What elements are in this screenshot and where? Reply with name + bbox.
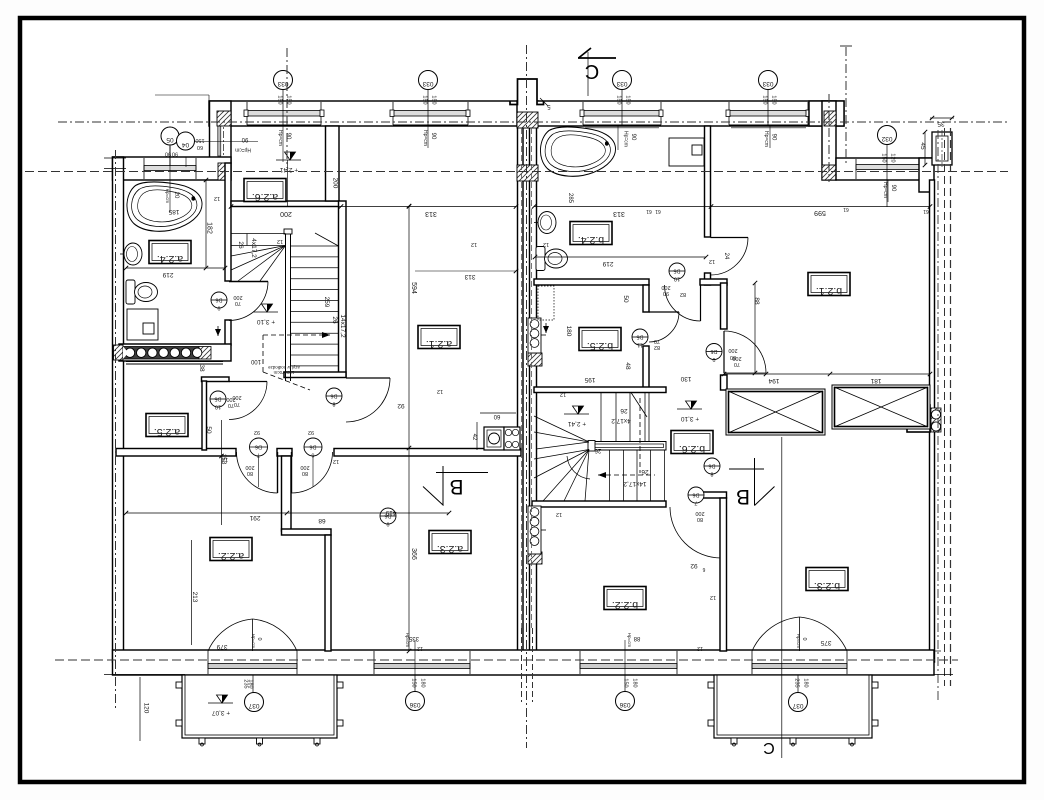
bubble 04 left: [177, 132, 195, 150]
wall step top-left unit A: [210, 101, 232, 163]
svg-text:14x17,2: 14x17,2: [339, 314, 346, 338]
svg-text:26: 26: [594, 447, 601, 453]
svg-text:48: 48: [624, 362, 631, 370]
svg-text:04: 04: [182, 141, 190, 148]
wall bathroom-A bottom radiator band: [119, 344, 231, 361]
svg-text:14x17,2: 14x17,2: [623, 480, 647, 487]
wall b.2.1 left lower: [721, 283, 728, 329]
door bubble D6/9 a.2.3: [380, 508, 396, 524]
svg-text:12: 12: [277, 238, 283, 244]
room label a.2.2: [210, 538, 252, 561]
room label a.2.3: [429, 531, 471, 554]
svg-text:50: 50: [622, 295, 629, 303]
axis line horizontal top: [58, 121, 1008, 123]
window W3 top unit B: [583, 102, 661, 125]
hatch below radiator b.2.5: [528, 353, 542, 366]
wall stairs-A right: [339, 201, 347, 377]
window W1 top unit A: [247, 102, 321, 125]
svg-text:D6: D6: [309, 444, 316, 450]
svg-text:150: 150: [286, 95, 292, 104]
svg-text:Hp=cm: Hp=cm: [627, 633, 632, 648]
svg-text:033: 033: [616, 80, 627, 87]
wall a.2.5 right: [202, 381, 207, 450]
svg-text:70: 70: [654, 338, 660, 344]
wall corridor-B jog: [692, 492, 727, 498]
radiator circles bathroom-A: [123, 347, 199, 360]
svg-text:Hp=cm: Hp=cm: [882, 182, 888, 198]
axis line horizontal bottom: [55, 659, 958, 661]
svg-text:10: 10: [215, 404, 221, 410]
svg-text:120: 120: [890, 153, 896, 162]
axis line top-right step vertical: [828, 94, 830, 182]
svg-text:b.2.1.: b.2.1.: [816, 285, 842, 297]
svg-text:8: 8: [710, 471, 713, 477]
svg-text:594: 594: [410, 282, 417, 294]
left margin extension lines: [104, 157, 126, 159]
svg-text:92: 92: [308, 429, 314, 435]
door bubble D6/7 corridor A: [250, 438, 268, 456]
svg-text:4x17,2: 4x17,2: [611, 417, 631, 424]
svg-text:200: 200: [300, 464, 309, 470]
svg-text:80: 80: [697, 516, 703, 522]
wall exterior top unit A: [209, 101, 538, 126]
svg-text:80: 80: [247, 470, 253, 476]
wall exterior right: [930, 180, 935, 662]
svg-text:200: 200: [245, 464, 254, 470]
svg-text:150: 150: [881, 153, 887, 162]
door bubble D6/9 bathroom A: [211, 292, 227, 308]
hatched pier step-B bottom: [822, 165, 836, 180]
svg-text:b.2.6.: b.2.6.: [679, 443, 705, 455]
balcony door unit A: [208, 651, 297, 674]
level mark +3,10 unit B: [677, 408, 702, 410]
wall exterior bottom: [113, 650, 935, 675]
hatched pier party wall second repeat: [517, 165, 538, 181]
svg-text:b.2.5.: b.2.5.: [587, 340, 613, 352]
hatch below radiator b.2.2: [528, 552, 542, 564]
svg-text:0: 0: [256, 637, 262, 640]
wall corner right wing: [919, 158, 934, 192]
svg-text:200: 200: [233, 294, 242, 300]
wall vestibule a.2.5 nib: [202, 377, 230, 382]
dim line y513 unit A: [126, 512, 449, 514]
svg-text:6: 6: [702, 566, 705, 572]
svg-text:b.2.3.: b.2.3.: [814, 580, 840, 592]
bubble 036 right: [616, 692, 635, 711]
wall exterior left: [113, 157, 124, 662]
wall exterior bathroom-A top: [113, 157, 232, 180]
axis line horizontal second: [25, 171, 1008, 173]
svg-text:8: 8: [332, 401, 335, 407]
svg-text:90: 90: [890, 185, 896, 192]
radiator vertical b.2.2: [528, 506, 541, 554]
svg-text:182: 182: [206, 222, 213, 234]
svg-text:12: 12: [222, 456, 228, 462]
shaft unit B right: [907, 405, 930, 432]
svg-text:180: 180: [803, 678, 809, 687]
svg-text:12: 12: [697, 645, 703, 651]
svg-text:150: 150: [195, 137, 204, 143]
dim line interior x203 bath A: [205, 180, 207, 268]
wall a.2.5 top thin: [126, 361, 223, 363]
bathtub unit B: [540, 127, 615, 176]
svg-text:12: 12: [710, 594, 716, 600]
svg-text:033: 033: [762, 80, 773, 87]
svg-text:9: 9: [386, 521, 389, 527]
svg-text:35: 35: [937, 120, 945, 127]
door b.2.1 entry: [723, 331, 725, 373]
svg-text:D6: D6: [255, 444, 262, 450]
section mark C bottom: [781, 437, 783, 758]
door bubble D5/9 b.2.1: [706, 344, 722, 360]
svg-text:036: 036: [619, 701, 630, 708]
svg-text:194: 194: [768, 377, 779, 384]
svg-text:38: 38: [198, 364, 205, 372]
svg-text:285: 285: [567, 193, 573, 204]
wall a.2.6/a.2.1 divider: [326, 126, 340, 201]
svg-text:120: 120: [143, 703, 150, 714]
toilet unit B: [536, 247, 568, 271]
svg-text:24: 24: [723, 253, 729, 260]
svg-text:+ 2,41: + 2,41: [567, 420, 586, 427]
door D6-7 corridor: [277, 452, 279, 493]
door bathroom-B: [711, 237, 749, 239]
svg-text:150: 150: [623, 678, 629, 687]
svg-text:05: 05: [166, 136, 174, 143]
axis party wall dashed pair main: [521, 128, 523, 628]
closet b.2.3 left: [726, 389, 825, 435]
hatched pier bathroom-A right: [218, 163, 231, 180]
door b.2.5: [647, 312, 649, 346]
bathtub unit A: [127, 182, 202, 231]
svg-text:26: 26: [620, 407, 628, 414]
svg-text:20: 20: [173, 192, 179, 199]
door bathroom-A: [229, 281, 268, 283]
svg-text:Hp=cm: Hp=cm: [623, 131, 629, 147]
shower tray unit B: [669, 138, 704, 166]
svg-text:200: 200: [661, 284, 670, 290]
axis line left edge vertical: [115, 150, 117, 708]
wall b.2.5 right: [643, 285, 649, 312]
wall exterior top unit B: [517, 101, 844, 126]
window W5 right wing: [856, 159, 919, 179]
svg-text:26: 26: [331, 316, 338, 324]
section mark C top: [587, 52, 589, 96]
wall a.2.6 bottom: [231, 201, 339, 207]
svg-text:70: 70: [734, 361, 740, 367]
window W4 top unit B: [729, 102, 808, 125]
section mark B left: [436, 472, 488, 474]
svg-text:185: 185: [168, 208, 179, 215]
hatched pier party wall top: [517, 112, 538, 128]
dim line y268 bath A: [126, 267, 225, 269]
door a.2.5: [229, 381, 267, 383]
svg-text:419: 419: [385, 509, 396, 516]
axis line party wall vertical: [526, 45, 528, 748]
svg-text:150: 150: [625, 95, 631, 104]
svg-text:Hp=cm: Hp=cm: [422, 130, 428, 146]
door bubble D5/10 a.2.5: [210, 391, 226, 407]
svg-text:88: 88: [753, 297, 760, 305]
svg-text:335: 335: [408, 635, 419, 641]
svg-text:195: 195: [584, 376, 595, 383]
hatched pier party wall second: [517, 165, 538, 181]
svg-text:a.2.6.: a.2.6.: [252, 191, 278, 203]
bubble 033 no1: [274, 71, 293, 90]
bubble 032 right: [878, 126, 897, 145]
svg-text:150: 150: [411, 678, 417, 687]
svg-text:130: 130: [680, 375, 691, 382]
svg-text:90: 90: [663, 290, 669, 296]
svg-text:150: 150: [771, 95, 777, 104]
svg-text:200: 200: [732, 355, 741, 361]
door bubble D5/10 bathroom B: [669, 263, 685, 279]
room label b.2.5: [579, 328, 621, 351]
hatched pier party wall top repeat: [517, 112, 538, 128]
wall exterior top-B lower wing: [836, 158, 932, 180]
dim line interior y206 unit B: [534, 206, 930, 208]
hatched pier top-left unit A repeat: [217, 111, 231, 126]
door b.2.6 to b.2.2: [720, 507, 722, 558]
svg-text:B: B: [449, 475, 463, 498]
svg-text:219: 219: [602, 260, 613, 267]
shower tray unit A: [127, 309, 158, 340]
svg-text:C: C: [763, 739, 775, 756]
bubble 05 left: [161, 127, 179, 145]
bubble 033 no4: [759, 71, 778, 90]
svg-text:200: 200: [280, 210, 292, 217]
chimney block above party wall: [518, 79, 538, 104]
svg-text:60: 60: [197, 144, 203, 150]
radiator vertical b.2.5: [528, 318, 541, 353]
wall stairs-B top / b.2.5 bottom: [534, 387, 666, 393]
svg-text:032: 032: [881, 135, 892, 142]
svg-text:12: 12: [709, 258, 715, 264]
svg-text:Hp=cm: Hp=cm: [235, 147, 251, 153]
stair walk line unit A: [262, 335, 264, 372]
svg-text:Hp=cm: Hp=cm: [277, 130, 283, 146]
room label b.2.1: [808, 273, 850, 296]
svg-text:181: 181: [870, 377, 881, 384]
stairs unit B: [589, 442, 666, 451]
svg-text:313: 313: [464, 273, 475, 280]
svg-text:42: 42: [471, 434, 477, 441]
dim line y271 unit A: [415, 270, 516, 272]
svg-text:200: 200: [226, 396, 235, 402]
svg-text:Hp=cm: Hp=cm: [796, 634, 801, 649]
svg-text:180: 180: [565, 326, 572, 337]
svg-text:90: 90: [285, 133, 291, 140]
room label b.2.3: [806, 568, 848, 591]
svg-text:Hp=cm: Hp=cm: [763, 131, 769, 147]
svg-text:D6: D6: [708, 463, 715, 469]
svg-text:200: 200: [332, 178, 339, 189]
svg-text:4x17,2: 4x17,2: [250, 238, 257, 258]
svg-text:150: 150: [277, 95, 283, 104]
svg-text:375: 375: [820, 639, 831, 646]
svg-text:61: 61: [923, 208, 929, 214]
stair walk line B: [639, 398, 641, 473]
washbasin unit B: [538, 212, 556, 234]
svg-text:+ 3,10: + 3,10: [680, 415, 699, 422]
wall stairs-A bottom: [284, 372, 346, 378]
level mark +3,10 stairs A: [253, 311, 278, 313]
balcony unit B: [714, 675, 872, 738]
svg-text:12: 12: [560, 391, 566, 397]
svg-text:037: 037: [248, 702, 259, 709]
svg-text:a.2.5.: a.2.5.: [154, 426, 180, 438]
svg-text:200: 200: [695, 510, 704, 516]
svg-text:150: 150: [762, 95, 768, 104]
balcony unit A: [182, 675, 337, 738]
svg-text:90: 90: [630, 134, 636, 141]
svg-text:150: 150: [422, 95, 428, 104]
svg-text:B: B: [736, 485, 750, 508]
svg-text:a.2.3.: a.2.3.: [437, 543, 463, 555]
svg-text:26: 26: [237, 241, 244, 249]
svg-text:92: 92: [254, 429, 260, 435]
dim line interior x409 vertical: [408, 206, 410, 651]
svg-text:235: 235: [794, 678, 800, 687]
balcony door unit B: [752, 651, 847, 674]
svg-text:9: 9: [217, 305, 220, 311]
svg-text:D5: D5: [710, 348, 717, 354]
door bubble D6/8 b.2.6: [704, 458, 720, 474]
svg-text:12: 12: [543, 241, 549, 247]
svg-text:D5: D5: [673, 268, 680, 274]
svg-text:70: 70: [235, 300, 241, 306]
wall divider b.2.2/b.2.3: [720, 498, 727, 651]
room label b.2.2: [604, 587, 646, 610]
svg-text:b.2.4.: b.2.4.: [578, 234, 604, 246]
bubble 033 no2: [419, 71, 438, 90]
svg-text:033: 033: [422, 80, 433, 87]
door D6-6 corridor: [291, 452, 293, 493]
svg-text:92: 92: [397, 402, 405, 409]
stair arc B: [567, 456, 590, 479]
svg-text:12: 12: [556, 511, 562, 517]
svg-text:9: 9: [712, 356, 715, 362]
dotted shaft b.2.4: [538, 286, 554, 320]
wall bathroom-B right: [705, 126, 711, 237]
door bubble D5/11 b.2.5: [632, 329, 648, 345]
tub A axis texts: [169, 146, 171, 212]
svg-text:82: 82: [654, 344, 660, 350]
top extension line unit A: [208, 95, 210, 101]
door bubble D6/8 hall A: [326, 388, 342, 404]
door bubble D6/7 b.2.6: [688, 487, 704, 503]
svg-text:68: 68: [318, 517, 326, 524]
svg-text:7: 7: [694, 500, 697, 506]
svg-text:150: 150: [431, 95, 437, 104]
svg-text:90: 90: [172, 151, 178, 157]
closet b.2.3 right: [832, 385, 930, 429]
svg-text:180: 180: [248, 679, 254, 688]
bubble 033 no3: [613, 71, 632, 90]
svg-text:180: 180: [420, 678, 426, 687]
svg-text:90: 90: [430, 133, 436, 140]
svg-text:80: 80: [302, 470, 308, 476]
dim line b.2.1 vertical: [754, 283, 756, 373]
svg-text:D6: D6: [692, 492, 699, 498]
wall a.2.5 bottom + corridor south: [116, 449, 236, 457]
wall exterior party: [518, 101, 524, 662]
bubble 036 left: [406, 692, 425, 711]
wall step top-right unit B: [809, 101, 844, 126]
room label a.2.5: [146, 414, 188, 437]
svg-text:037: 037: [792, 702, 803, 709]
svg-text:0: 0: [801, 637, 807, 640]
wall stairs-B bottom: [532, 501, 666, 507]
svg-text:213: 213: [191, 592, 198, 603]
axis party wall dashed pair bottom: [521, 628, 523, 702]
svg-text:61: 61: [655, 208, 661, 214]
svg-text:313: 313: [613, 210, 625, 217]
svg-text:120x70cm: 120x70cm: [273, 370, 294, 375]
svg-text:379: 379: [216, 643, 227, 650]
window a.2.3 bottom: [374, 651, 470, 674]
svg-text:12: 12: [214, 195, 220, 201]
svg-text:291: 291: [249, 514, 260, 521]
bubble 037 balcony B: [789, 693, 808, 712]
room label a.2.1: [418, 326, 460, 349]
wall bathroom-B bottom: [534, 279, 649, 285]
svg-text:313: 313: [425, 210, 437, 217]
svg-text:a.2.4.: a.2.4.: [157, 253, 183, 265]
svg-text:12: 12: [471, 241, 477, 247]
door bubble D6/6 corridor A: [304, 438, 322, 456]
svg-text:82: 82: [680, 291, 686, 297]
svg-text:219: 219: [162, 271, 173, 278]
svg-text:036: 036: [409, 701, 420, 708]
room label a.2.6: [244, 179, 286, 202]
wall divider a.2.2/a.2.3: [282, 456, 292, 531]
balcony door A arcs: [252, 619, 254, 651]
balcony door B arcs: [799, 617, 801, 651]
svg-text:12: 12: [417, 645, 423, 651]
svg-text:60: 60: [493, 413, 500, 419]
svg-text:100: 100: [250, 358, 261, 364]
chimney top right: [932, 132, 952, 165]
svg-text:12: 12: [437, 388, 443, 394]
svg-text:599: 599: [814, 209, 826, 216]
room label b.2.4: [570, 222, 612, 245]
svg-text:259: 259: [323, 297, 330, 308]
svg-text:C: C: [585, 60, 599, 82]
dim chain x221: [221, 420, 223, 525]
bubble 037 balcony A: [245, 693, 264, 712]
stairs unit A: [285, 232, 287, 381]
section mark B right: [729, 468, 764, 470]
svg-text:D6: D6: [215, 297, 222, 303]
svg-text:200: 200: [728, 347, 737, 353]
svg-text:Hp=cm: Hp=cm: [251, 634, 256, 649]
svg-text:92: 92: [690, 562, 698, 569]
svg-text:61: 61: [843, 206, 849, 212]
svg-text:D6: D6: [330, 393, 337, 399]
level mark +2,41 unit B: [564, 413, 589, 415]
level mark +2,41 unit A: [276, 159, 301, 161]
svg-text:Hp=cm: Hp=cm: [165, 189, 170, 204]
svg-text:a.2.1.: a.2.1.: [426, 338, 452, 350]
svg-text:88: 88: [633, 635, 640, 641]
svg-text:70: 70: [228, 402, 234, 408]
svg-text:11: 11: [637, 342, 643, 348]
bottom wall face extensions right: [934, 650, 941, 652]
svg-text:+ 3,10: + 3,10: [256, 318, 275, 325]
svg-text:150: 150: [616, 95, 622, 104]
window b.2.2 bottom: [580, 651, 677, 674]
